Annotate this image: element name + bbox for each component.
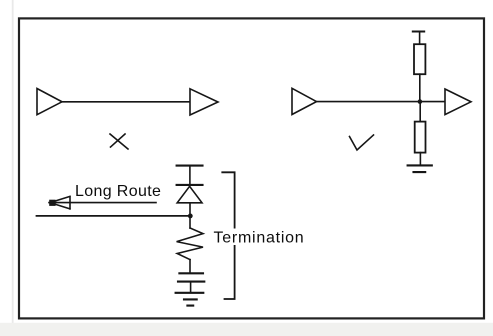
VCC rail bar (413, 31, 424, 33)
wire R1 to node (419, 74, 421, 101)
junction node (top-right) (418, 99, 423, 104)
main wire long route (37, 215, 191, 217)
driver buffer U3 (top-right) (292, 88, 317, 114)
wire R3 to C1 (189, 260, 191, 273)
receiver buffer U4 (top-right) (445, 89, 471, 115)
bracket termination (222, 172, 234, 299)
ground (top-right) (408, 165, 432, 172)
junction node (termination) (188, 214, 193, 219)
X wrong mark (110, 134, 128, 149)
resistor R1 pull-up (414, 44, 425, 74)
VCC rail bar (termination) (177, 165, 203, 167)
wire VCC to diode D1 (189, 166, 191, 185)
wire R2 to ground (419, 153, 421, 165)
arrow tip dot (49, 200, 55, 206)
wire node to R3 (189, 216, 191, 228)
wire C1 to ground (190, 282, 192, 292)
svg-text:Termination: Termination (214, 229, 305, 246)
open arrowhead (50, 196, 70, 209)
arrow line Long Route (49, 202, 156, 204)
ground (termination) (176, 293, 204, 306)
diode D1 cathode bar (177, 184, 203, 186)
capacitor C1 bottom plate (178, 281, 204, 283)
wire VCC to R1 (419, 32, 421, 45)
driver buffer U1 (top-left) (37, 89, 62, 115)
capacitor C1 top plate (179, 272, 203, 274)
wire node to R2 (419, 102, 421, 122)
resistor R2 pull-down (415, 122, 426, 153)
wire net between U3 and U4 (317, 101, 446, 103)
check mark (350, 135, 374, 150)
diode D1 triangle (177, 186, 202, 203)
resistor R3 zigzag (177, 228, 203, 260)
svg-text:Long Route: Long Route (75, 183, 161, 200)
wire net between U1 and U2 (62, 101, 190, 103)
wire D1 to node (189, 203, 191, 216)
page edge shading left (12, 0, 14, 336)
white backing for Termination label (213, 229, 304, 246)
bottom gray strip (0, 323, 493, 336)
receiver buffer U2 (top-left) (190, 89, 218, 115)
